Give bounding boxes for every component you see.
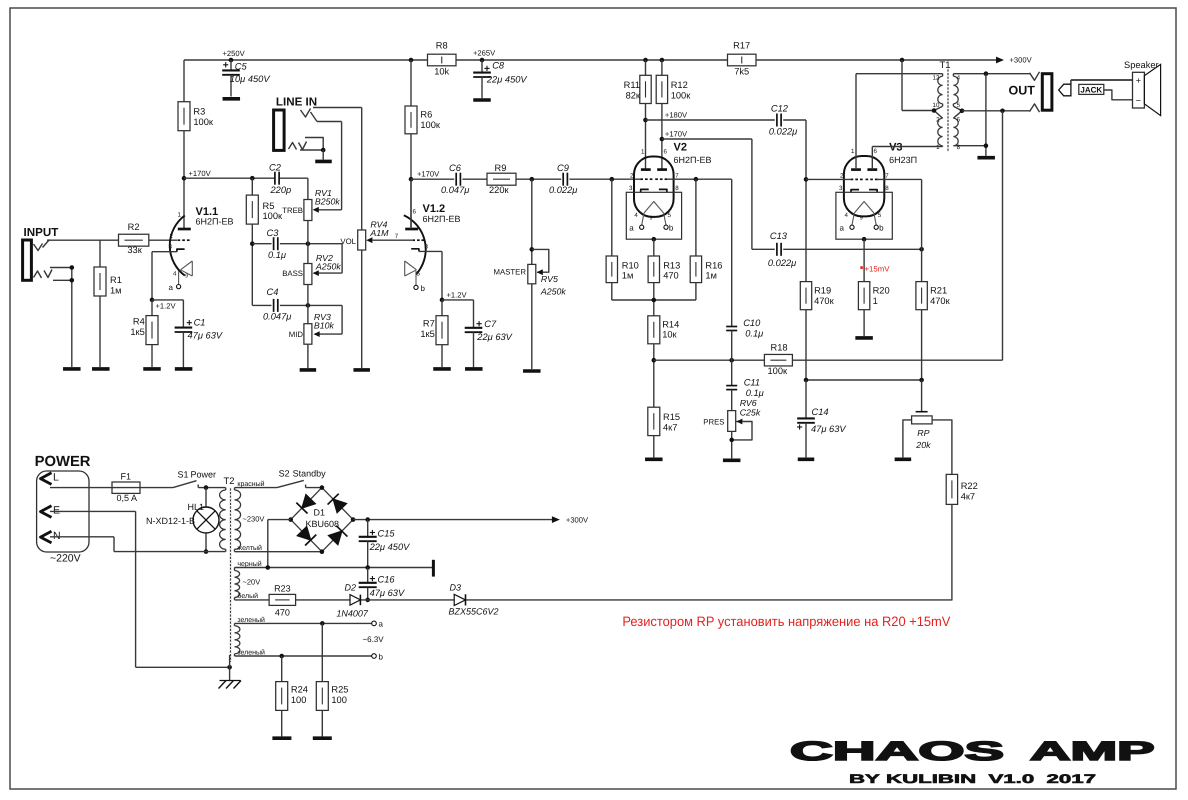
svg-text:3: 3 [839, 185, 843, 192]
node T1 pin4 [984, 71, 989, 76]
title CHAOS AMP [790, 736, 1155, 766]
potentiometer RV5 MASTER [494, 179, 567, 369]
wire C4 row [252, 305, 342, 337]
wire E to chassis [50, 511, 230, 667]
svg-text:47μ 63V: 47μ 63V [188, 331, 223, 341]
svg-text:100: 100 [291, 695, 307, 705]
svg-text:4: 4 [634, 212, 638, 219]
node C15 top [365, 517, 370, 522]
svg-text:MID: MID [289, 330, 304, 339]
svg-text:R17: R17 [733, 41, 750, 51]
svg-text:A1M: A1M [369, 228, 389, 238]
svg-text:C11: C11 [744, 378, 760, 388]
svg-text:6Н2П-ЕВ: 6Н2П-ЕВ [196, 217, 234, 227]
wire R18 to feedback line [792, 359, 1002, 361]
svg-text:1: 1 [851, 148, 855, 155]
capacitor C6 [441, 163, 469, 195]
node HL1 bottom [204, 549, 209, 554]
node R11 top [643, 58, 648, 63]
node R5 top [250, 176, 255, 181]
ground R15 [645, 457, 663, 461]
svg-text:22μ 450V: 22μ 450V [486, 75, 528, 85]
svg-text:+: + [1136, 76, 1141, 86]
wire C3 row [252, 244, 342, 276]
capacitor C13 [768, 231, 796, 268]
svg-text:6Н23П: 6Н23П [889, 155, 917, 165]
node R10/V2 grid [610, 177, 615, 182]
svg-text:R14: R14 [662, 319, 679, 329]
jack INPUT [23, 226, 59, 280]
svg-text:HL1: HL1 [188, 502, 205, 512]
ground R4 [143, 367, 161, 371]
node HL1 top [204, 485, 209, 490]
cathode box V3 [836, 192, 892, 239]
resistor R24 [276, 656, 308, 736]
resistor R6 [405, 60, 441, 229]
svg-text:0.1μ: 0.1μ [745, 329, 763, 339]
svg-text:A250k: A250k [540, 287, 567, 297]
svg-text:V2: V2 [674, 142, 687, 154]
wire input tip to R2 [47, 239, 119, 241]
svg-text:T1: T1 [940, 60, 951, 71]
svg-text:C7: C7 [484, 319, 497, 329]
svg-text:220к: 220к [489, 185, 510, 195]
svg-text:8: 8 [885, 185, 889, 192]
node R6/R8 junction [409, 58, 414, 63]
svg-text:CHAOS: CHAOS [790, 736, 1004, 766]
node +170V (V1.2 anode) [409, 170, 440, 182]
svg-text:LINE IN: LINE IN [276, 96, 317, 109]
resistor R23 [269, 584, 296, 618]
node C10/C11 mid [729, 358, 734, 363]
capacitor C1 [175, 300, 223, 368]
wire 6.3V winding b [235, 655, 372, 657]
svg-text:8: 8 [425, 244, 429, 251]
ground R20 [855, 336, 873, 340]
svg-text:2: 2 [170, 233, 174, 240]
svg-text:белый: белый [237, 592, 258, 600]
svg-text:1: 1 [641, 149, 645, 156]
terminal 0V rail end [432, 560, 435, 577]
wire bridge plus to +300V [353, 516, 589, 525]
wire yellow to bridge [235, 551, 322, 553]
chassis ground [219, 667, 242, 688]
capacitor C12 [769, 104, 797, 137]
svg-text:R4: R4 [133, 317, 145, 327]
net label белый [237, 592, 258, 600]
node +1.2V (V1.2) [440, 290, 468, 302]
svg-text:6: 6 [957, 117, 961, 124]
svg-text:0.022μ: 0.022μ [769, 127, 797, 137]
svg-text:100к: 100к [263, 211, 284, 221]
wire T1 secondary ground leg [985, 74, 987, 156]
svg-text:Power: Power [191, 470, 217, 480]
svg-text:7: 7 [395, 233, 399, 240]
note red instruction [622, 614, 950, 629]
resistor R22 [946, 474, 978, 600]
wire white/-20V rail [235, 599, 953, 601]
svg-text:C25k: C25k [740, 408, 761, 418]
svg-text:C5: C5 [235, 62, 248, 72]
capacitor C5 [222, 60, 270, 97]
svg-text:C14: C14 [812, 407, 829, 417]
wire N return [50, 537, 226, 552]
svg-text:470к: 470к [930, 296, 951, 306]
terminal b [372, 653, 384, 662]
svg-text:100к: 100к [193, 117, 214, 127]
ground T1 secondary [977, 156, 995, 160]
svg-text:L: L [53, 472, 59, 484]
node C16 bottom [365, 598, 370, 603]
ground R24 [272, 736, 291, 740]
node +170V (R12) [660, 130, 688, 142]
svg-text:0.047μ: 0.047μ [441, 185, 469, 195]
svg-text:10μ 450V: 10μ 450V [230, 74, 271, 84]
svg-text:b: b [879, 224, 884, 233]
svg-text:1: 1 [936, 144, 940, 151]
svg-text:100: 100 [331, 695, 347, 705]
svg-text:~230V: ~230V [243, 515, 265, 524]
node R25 top [320, 621, 325, 626]
svg-text:OUT: OUT [1009, 84, 1036, 98]
diode D2 [336, 583, 369, 619]
svg-text:5: 5 [417, 271, 421, 278]
node C3 right [306, 241, 311, 246]
jack OUT [1009, 72, 1052, 112]
svg-text:R19: R19 [814, 286, 831, 296]
svg-text:6: 6 [874, 148, 878, 155]
node RV5 tap [530, 177, 535, 182]
svg-text:+1.2V: +1.2V [156, 301, 177, 310]
capacitor C9 [549, 163, 577, 195]
svg-text:POWER: POWER [35, 454, 91, 470]
svg-text:R10: R10 [622, 260, 639, 270]
lamp HL1 [146, 488, 219, 552]
svg-text:6Н2П-ЕВ: 6Н2П-ЕВ [674, 155, 712, 165]
svg-text:PRES: PRES [703, 418, 724, 427]
double triode V3 [839, 142, 917, 233]
wire V1.2 cathode [419, 251, 442, 300]
svg-text:R8: R8 [436, 41, 448, 51]
wire cathode node to C7 [442, 299, 474, 301]
svg-text:Standby: Standby [293, 469, 327, 479]
svg-text:C8: C8 [492, 61, 505, 71]
svg-text:2: 2 [936, 117, 940, 124]
ground input jack [63, 367, 81, 371]
svg-text:красный: красный [237, 480, 264, 488]
svg-text:6: 6 [413, 209, 417, 216]
svg-text:R7: R7 [423, 319, 435, 329]
svg-text:a: a [379, 620, 384, 629]
wire S2 to bridge [306, 487, 322, 489]
triode V1.1 [169, 206, 234, 292]
svg-text:1: 1 [178, 212, 182, 219]
svg-text:R2: R2 [128, 222, 140, 232]
svg-text:~20V: ~20V [243, 578, 261, 587]
svg-text:1к5: 1к5 [420, 329, 434, 339]
wire +170V coupling row [411, 178, 640, 180]
wire red to S2 [235, 487, 278, 489]
svg-text:C4: C4 [267, 287, 279, 297]
svg-text:9: 9 [185, 274, 188, 280]
svg-text:1м: 1м [622, 271, 634, 281]
node R14 top [652, 298, 657, 303]
svg-text:R22: R22 [961, 481, 978, 491]
node T1 B+ tap [900, 58, 905, 63]
svg-text:INPUT: INPUT [24, 226, 59, 239]
resistor R3 [178, 60, 214, 229]
svg-text:KBU608: KBU608 [306, 519, 340, 529]
node R24 top [279, 654, 284, 659]
svg-text:N-XD12-1-B: N-XD12-1-B [146, 516, 195, 526]
svg-text:Speaker: Speaker [1124, 60, 1159, 70]
svg-text:R9: R9 [495, 163, 507, 173]
node V3 left grid [804, 177, 809, 182]
svg-text:0.022μ: 0.022μ [549, 185, 577, 195]
svg-text:C10: C10 [743, 318, 761, 328]
svg-text:R25: R25 [331, 685, 348, 695]
svg-text:+265V: +265V [473, 49, 496, 58]
ground RV6 [723, 458, 741, 462]
svg-text:5: 5 [878, 212, 882, 219]
ground RV5 [523, 369, 541, 373]
resistor R19 [800, 282, 834, 380]
svg-text:8: 8 [957, 144, 961, 151]
terminal a [372, 620, 384, 629]
svg-text:2: 2 [840, 172, 844, 179]
potentiometer RV6 PRES [703, 398, 761, 458]
ground C5 [223, 97, 241, 101]
svg-text:R1: R1 [110, 275, 122, 285]
svg-text:3: 3 [169, 244, 173, 251]
node bridge minus [266, 565, 271, 570]
ground RV4 [353, 368, 370, 372]
ground C14 [798, 457, 815, 461]
ground C7 [465, 367, 483, 371]
wire V3 right grid [878, 179, 922, 281]
resistor R17 [728, 41, 757, 77]
svg-text:~220V: ~220V [50, 553, 81, 565]
svg-text:C3: C3 [267, 228, 280, 238]
ground R25 [313, 736, 332, 740]
resistor R4 [130, 300, 158, 367]
svg-text:470: 470 [663, 271, 679, 281]
svg-text:B250k: B250k [315, 197, 341, 207]
svg-text:6: 6 [664, 149, 668, 156]
svg-text:100к: 100к [420, 120, 441, 130]
wire V3 left anode to T1 pin12 [856, 74, 943, 170]
svg-text:R3: R3 [193, 107, 205, 117]
node R19 bottom [804, 378, 809, 383]
node R16/V2 grid [694, 177, 699, 182]
double triode V2 [629, 142, 711, 233]
bridge rectifier D1 [288, 485, 355, 554]
wire V2 right grid [667, 178, 731, 180]
node T1 sec 5/6 [960, 109, 965, 114]
svg-text:E: E [53, 505, 60, 517]
svg-text:0,5 A: 0,5 A [117, 493, 138, 503]
wire +170V to tone stack [184, 178, 308, 199]
node C3 left [250, 241, 255, 246]
node C5 tap [229, 58, 234, 63]
svg-text:D3: D3 [450, 583, 462, 593]
svg-text:1м: 1м [705, 271, 717, 281]
node C15/C16 mid [365, 565, 370, 570]
svg-text:1: 1 [873, 296, 878, 306]
wire LINE IN sleeve [300, 138, 326, 160]
svg-text:C16: C16 [378, 575, 396, 585]
svg-text:6Н2П-ЕВ: 6Н2П-ЕВ [423, 214, 461, 224]
svg-text:0.1μ: 0.1μ [268, 250, 286, 260]
transformer T2 [220, 476, 241, 667]
wire C12 to V3 grid column [783, 120, 806, 282]
svg-text:4: 4 [845, 212, 849, 219]
svg-text:A250k: A250k [315, 262, 342, 272]
net label зеленый bottom [237, 649, 265, 657]
svg-text:5: 5 [957, 102, 961, 109]
svg-text:22μ 450V: 22μ 450V [369, 542, 411, 552]
svg-text:BASS: BASS [282, 269, 303, 278]
diode D3 [449, 583, 499, 617]
wire V1.2 anode [410, 179, 412, 229]
svg-text:−: − [1136, 96, 1141, 106]
resistor R1 [94, 240, 122, 367]
svg-text:C9: C9 [557, 163, 569, 173]
wire 6.3V winding a [235, 622, 372, 624]
wire feedback line [1002, 111, 1004, 360]
wire cathode bus y300 [612, 299, 696, 301]
capacitor C10 [726, 179, 763, 360]
resistor R7 [420, 300, 448, 367]
svg-text:1м: 1м [110, 285, 122, 295]
switch S2 Standby [277, 469, 326, 488]
svg-text:+170V: +170V [189, 169, 212, 178]
svg-text:BZX55C6V2: BZX55C6V2 [449, 607, 499, 617]
svg-text:0.022μ: 0.022μ [768, 258, 796, 268]
svg-text:V3: V3 [889, 142, 902, 154]
potentiometer RV3 MID [289, 312, 335, 368]
cathode box V2 [626, 192, 681, 239]
net label желтый [237, 544, 262, 552]
svg-text:8: 8 [675, 185, 679, 192]
svg-text:R13: R13 [663, 260, 680, 270]
net label красный [237, 480, 264, 488]
resistor R15 [648, 407, 680, 457]
svg-text:+1.2V: +1.2V [447, 290, 468, 299]
wire T1 output to OUT sleeve [962, 110, 1030, 112]
wire T1 pin4 to OUT tip [986, 73, 1030, 75]
potentiometer RV1 TREB [282, 188, 340, 264]
svg-text:10к: 10к [662, 330, 677, 340]
svg-text:R12: R12 [671, 80, 688, 90]
svg-text:N: N [53, 530, 61, 542]
wire +180V to C12 [646, 119, 775, 121]
svg-text:R18: R18 [771, 343, 788, 353]
ground LINE IN [315, 160, 332, 164]
ground R7 [433, 367, 451, 371]
svg-text:47μ 63V: 47μ 63V [811, 424, 846, 434]
net label зеленый top [237, 616, 265, 624]
resistor R13 [648, 239, 680, 316]
svg-text:AMP: AMP [1030, 736, 1155, 766]
node +180V [643, 111, 688, 123]
node chassis [227, 665, 232, 670]
node +1.2V (V1.1) [150, 298, 177, 311]
net label ~20V [243, 578, 261, 587]
svg-text:22μ 63V: 22μ 63V [476, 332, 512, 342]
svg-text:C15: C15 [378, 529, 396, 539]
node T1 primary CT [932, 108, 937, 113]
svg-text:S1: S1 [178, 470, 189, 480]
svg-text:R5: R5 [263, 201, 275, 211]
svg-text:VOL: VOL [340, 237, 356, 246]
svg-text:3: 3 [629, 185, 633, 192]
node +170V (V1.1 anode) [182, 169, 212, 181]
resistor R20 [858, 239, 889, 336]
svg-text:D1: D1 [314, 508, 326, 518]
ground RP [895, 457, 912, 461]
svg-text:b: b [379, 653, 384, 662]
resistor R21 [916, 282, 951, 380]
svg-text:+170V: +170V [665, 130, 688, 139]
svg-text:JACK: JACK [1080, 86, 1102, 95]
svg-text:7: 7 [675, 172, 679, 179]
svg-text:C1: C1 [194, 318, 206, 328]
net label +300V [1010, 56, 1033, 65]
wire +250V/+265V/+300V top rail [184, 57, 1004, 64]
ground C8 [473, 98, 491, 102]
net label ~6.3V [363, 635, 385, 644]
transformer T1 [933, 60, 986, 152]
svg-text:4: 4 [957, 75, 961, 82]
resistor R10 [606, 179, 639, 300]
svg-text:470к: 470к [814, 296, 835, 306]
svg-text:10k: 10k [434, 67, 449, 77]
resistor R12 [656, 60, 691, 170]
svg-text:D2: D2 [345, 583, 357, 593]
svg-text:RV5: RV5 [541, 274, 558, 284]
svg-text:a: a [629, 224, 634, 233]
svg-text:RV6: RV6 [740, 398, 757, 408]
svg-text:7: 7 [885, 172, 889, 179]
wire fuse to S1 [140, 487, 173, 489]
svg-text:C2: C2 [269, 163, 282, 173]
svg-text:C12: C12 [771, 104, 789, 114]
capacitor C15 [359, 520, 410, 568]
svg-text:9: 9 [860, 216, 863, 222]
wire V3 right anode to T1 pin1 [872, 147, 942, 170]
svg-text:4: 4 [173, 271, 177, 278]
wire +170V to C13 [662, 139, 775, 249]
ground C1 [175, 367, 193, 371]
resistor R9 [487, 163, 516, 195]
switch S1 Power [173, 470, 216, 488]
svg-text:R11: R11 [624, 80, 640, 90]
svg-text:C6: C6 [449, 163, 462, 173]
svg-text:R20: R20 [873, 286, 890, 296]
node +265V [480, 58, 485, 63]
resistor R14 [648, 316, 679, 407]
wire 0V rail [235, 567, 434, 569]
svg-text:0.047μ: 0.047μ [263, 311, 291, 321]
ground R1 [92, 367, 110, 371]
svg-text:5: 5 [668, 212, 672, 219]
svg-text:82к: 82к [626, 90, 641, 100]
svg-text:+300V: +300V [1010, 56, 1033, 65]
resistor R2 [119, 222, 149, 255]
wire L to fuse [50, 487, 112, 489]
wire bias rail y380 [806, 379, 922, 381]
